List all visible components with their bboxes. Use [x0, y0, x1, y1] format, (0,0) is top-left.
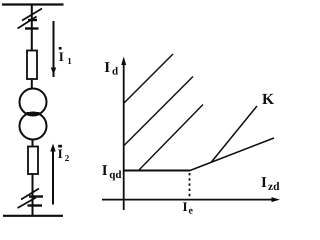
arrow I1 (current into transformer, down) — [51, 21, 56, 77]
svg-text:K: K — [262, 91, 274, 108]
label Iqd — [102, 163, 122, 181]
svg-text:I: I — [104, 60, 110, 76]
hatch line 1 — [124, 54, 173, 103]
label I1 — [59, 47, 72, 66]
label Id — [104, 60, 118, 78]
busbar bottom — [3, 215, 63, 217]
svg-text:I: I — [102, 163, 108, 179]
CT box 1 — [27, 51, 37, 80]
svg-text:zd: zd — [268, 181, 280, 193]
y-axis Id — [121, 57, 126, 211]
svg-text:d: d — [112, 66, 118, 78]
svg-text:qd: qd — [109, 169, 121, 181]
wire: CT1 to transformer — [31, 79, 33, 89]
svg-text:1: 1 — [67, 56, 72, 66]
svg-text:I: I — [58, 146, 63, 161]
characteristic: sloped section — [190, 138, 274, 171]
svg-text:2: 2 — [65, 153, 70, 163]
system symbol top (ticks + slashes) — [18, 9, 43, 29]
wire: top busbar to CT1 — [31, 4, 33, 51]
characteristic: horizontal Iqd section — [124, 170, 190, 172]
hatch line 3 — [138, 105, 203, 172]
x-axis Izd — [102, 197, 280, 202]
svg-text:e: e — [189, 206, 194, 217]
wire: transformer to CT2 — [32, 139, 34, 147]
arrow I2 (current into transformer, up) — [50, 144, 55, 205]
K line — [211, 106, 257, 163]
busbar top — [2, 3, 64, 5]
label Ie — [183, 199, 194, 217]
dotted line Ie — [189, 173, 191, 198]
wire: CT2 to bottom busbar — [32, 174, 34, 216]
svg-text:I: I — [183, 199, 188, 214]
label I2 — [58, 145, 70, 163]
svg-text:I: I — [59, 49, 64, 64]
hatch line 2 — [124, 77, 193, 146]
transformer T (two windings) — [20, 89, 47, 140]
system symbol bottom (ticks + slashes) — [18, 189, 44, 209]
svg-text:I: I — [261, 175, 267, 191]
CT box 2 — [28, 147, 38, 175]
label Izd — [261, 175, 280, 193]
